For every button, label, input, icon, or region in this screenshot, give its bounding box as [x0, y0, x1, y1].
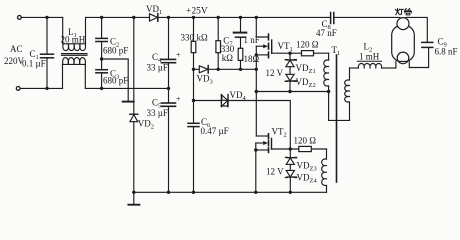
diode VD3	[199, 66, 208, 73]
label lamp chinese guan	[404, 9, 411, 15]
T1 winding 3 feedback VT2	[326, 149, 328, 159]
node rail zener	[289, 191, 292, 194]
resistor 18 Ohm	[238, 48, 243, 69]
wire diac to VT2 gate	[228, 101, 290, 150]
ground earth stub 2	[133, 192, 135, 204]
transistor VT1 MOSFET	[256, 17, 271, 57]
node C1 bottom	[45, 87, 48, 90]
wire bottom input rail	[20, 87, 62, 89]
wire midpoint to T1	[256, 91, 328, 93]
wire earth branch	[102, 59, 129, 101]
diac VD4	[221, 95, 228, 107]
node C2 C3 mid	[100, 57, 103, 60]
wire lamp top right to C9	[406, 17, 427, 42]
L1 core	[62, 53, 88, 55]
wire VD2 column	[133, 17, 135, 114]
wire bottom input rail right part	[86, 87, 169, 89]
zener VDZ3	[286, 149, 297, 170]
lamp tube	[392, 18, 429, 68]
svg-text:47 nF: 47 nF	[316, 28, 337, 38]
svg-text:12 V: 12 V	[266, 68, 284, 78]
node VT2 source body	[254, 148, 257, 151]
wire top rail lamp segment	[334, 16, 400, 18]
svg-text:33 µF: 33 µF	[147, 108, 168, 118]
svg-text:12 V: 12 V	[266, 167, 284, 177]
ground earth bar 1	[123, 101, 134, 103]
L1 upper winding	[62, 17, 64, 43]
svg-text:VD2: VD2	[138, 119, 154, 131]
zener VDZ1	[285, 53, 296, 74]
node VT1 source row junction	[255, 68, 258, 71]
node 330k second bottom	[217, 68, 220, 71]
wire VT1 gate row	[272, 52, 329, 54]
svg-text:0.1 µF: 0.1 µF	[22, 59, 46, 69]
diode VD1	[150, 14, 158, 22]
resistor 120 Ohm bottom	[299, 146, 312, 151]
node 330k second top	[217, 16, 220, 19]
node C1 top	[45, 16, 48, 19]
node C2 top	[100, 16, 103, 19]
node 18 Ohm bottom	[239, 68, 242, 71]
node VD2 top	[132, 16, 135, 19]
svg-text:kΩ: kΩ	[222, 53, 234, 63]
capacitor C4 electrolytic	[162, 17, 176, 88]
wire VT2 gate row	[272, 148, 327, 150]
capacitor C3	[96, 70, 107, 89]
svg-text:VDZ1: VDZ1	[296, 63, 316, 75]
capacitor C7	[234, 17, 247, 48]
svg-text:20 mH: 20 mH	[61, 34, 86, 44]
terminal top-left	[18, 16, 22, 20]
svg-text:VDZ2: VDZ2	[296, 77, 316, 89]
node rail VT2 source	[254, 191, 257, 194]
wire top rail left	[21, 16, 62, 18]
capacitor C9	[422, 42, 433, 48]
svg-text:VDZ3: VDZ3	[297, 161, 317, 173]
node diac wire left	[192, 99, 195, 102]
lamp bottom left pin	[395, 61, 397, 68]
svg-text:330: 330	[181, 33, 195, 43]
node C3 bottom	[100, 87, 103, 90]
svg-text:33 µF: 33 µF	[147, 63, 168, 73]
svg-text:kΩ: kΩ	[197, 33, 209, 43]
capacitor C6	[188, 123, 199, 192]
T1 core	[336, 55, 338, 182]
ground earth bar 2	[128, 204, 139, 206]
wire VD3 row	[194, 68, 257, 70]
svg-text:VDZ4: VDZ4	[297, 173, 318, 185]
wire top rail main	[86, 16, 331, 18]
label 1 mH underline	[357, 60, 381, 62]
wire VT2 source down	[255, 150, 257, 192]
svg-text:680 pF: 680 pF	[103, 76, 128, 86]
lamp bottom right pin	[409, 48, 428, 68]
transistor VT2 MOSFET	[256, 134, 272, 153]
svg-text:VT1: VT1	[278, 41, 293, 53]
node rail C6	[192, 191, 195, 194]
T1 winding 2 primary	[329, 102, 350, 120]
svg-text:120 Ω: 120 Ω	[294, 136, 317, 146]
L1 lower winding	[62, 64, 64, 88]
resistor 330k second	[216, 17, 221, 69]
wire 330k column lower	[193, 69, 195, 123]
svg-text:680 pF: 680 pF	[103, 46, 128, 56]
diode VD2	[130, 114, 138, 192]
wire bottom rail	[134, 191, 327, 193]
inductor L2	[350, 64, 396, 69]
svg-text:+25V: +25V	[186, 7, 208, 17]
node 330k top	[192, 16, 195, 19]
node C7 top	[239, 16, 242, 19]
node VT2 gate junction	[289, 147, 292, 150]
resistor 330k first	[191, 17, 196, 69]
terminal bottom-left	[16, 87, 20, 91]
node C4 top	[167, 16, 170, 19]
node VT1 source body	[255, 53, 258, 56]
wire diac row	[194, 100, 222, 102]
node VD3 wire left	[192, 68, 195, 71]
svg-text:VD3: VD3	[197, 74, 213, 86]
svg-text:+: +	[176, 95, 181, 104]
node zener stack top	[288, 52, 291, 55]
svg-text:VD1: VD1	[146, 4, 162, 16]
lamp filament bottom	[397, 52, 409, 64]
capacitor C5 electrolytic	[162, 88, 176, 192]
node zener bottom on midpoint	[288, 90, 291, 93]
node VT1 drain top	[255, 16, 258, 19]
node midpoint branch	[255, 90, 258, 93]
svg-text:0.47 µF: 0.47 µF	[201, 126, 229, 136]
label lamp chinese deng	[395, 9, 403, 15]
svg-text:+: +	[176, 51, 181, 60]
node rail VD2	[132, 191, 135, 194]
T1 winding 1 feedback VT1	[328, 53, 330, 60]
resistor 120 Ohm top	[302, 51, 314, 56]
svg-text:VT2: VT2	[272, 127, 287, 139]
capacitor C8	[331, 13, 334, 24]
zener VDZ2	[285, 74, 296, 91]
transformer T1	[322, 53, 350, 192]
svg-text:1 mH: 1 mH	[359, 52, 380, 62]
wire midpoint vertical	[255, 55, 257, 136]
node T1 midpoint join	[327, 90, 330, 93]
capacitor C1	[41, 17, 54, 88]
node rail C5	[167, 191, 170, 194]
svg-text:1 nF: 1 nF	[244, 35, 260, 45]
zener VDZ4	[286, 170, 297, 192]
capacitor C2	[96, 17, 107, 69]
node C4 C5 mid	[167, 87, 170, 90]
svg-text:6.8 nF: 6.8 nF	[435, 47, 458, 57]
svg-text:120 Ω: 120 Ω	[296, 40, 319, 50]
inductor L1 common-mode choke	[62, 17, 88, 88]
lamp filament top	[397, 18, 409, 30]
svg-text:AC: AC	[10, 44, 23, 54]
